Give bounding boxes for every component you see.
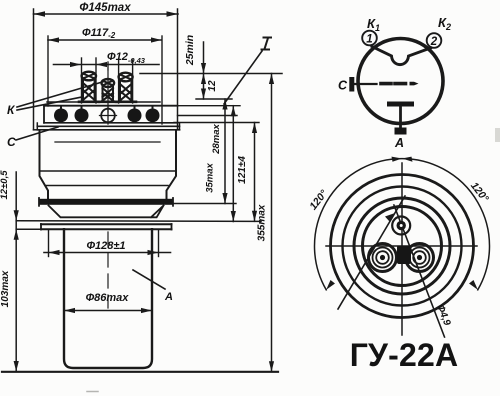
svg-text:К1: К1 xyxy=(367,16,380,33)
ground baseline xyxy=(2,371,278,373)
ring bottom reference line xyxy=(16,228,171,230)
grid terminal tick xyxy=(349,77,354,92)
svg-text:2: 2 xyxy=(430,36,438,48)
axis dashed centerline xyxy=(107,62,109,308)
top pin (grid) xyxy=(392,217,410,235)
120 degree dimension arc xyxy=(315,159,490,290)
center exhaust tip (circle with cross) xyxy=(100,107,117,124)
faint right edge artifact xyxy=(495,128,500,142)
dimension 12 (right) xyxy=(201,74,218,100)
svg-text:С: С xyxy=(338,79,348,93)
lower-right pin (cathode) xyxy=(406,244,434,272)
ceramic body outline xyxy=(40,130,177,199)
leader to view I xyxy=(224,51,262,104)
svg-text:355max: 355max xyxy=(257,204,268,241)
svg-text:Ф117-2: Ф117-2 xyxy=(82,27,116,40)
top cap terminal 1 xyxy=(79,58,99,103)
svg-text:12: 12 xyxy=(207,80,218,92)
diagonal through lower-right pin (leader of Ф4,9) xyxy=(394,205,445,337)
outer circle xyxy=(331,175,474,318)
circle 3 xyxy=(354,198,450,294)
svg-text:28max: 28max xyxy=(211,123,222,154)
svg-text:25min: 25min xyxy=(184,35,196,66)
dimension 28max xyxy=(211,99,228,204)
arc arrowhead lower-right xyxy=(469,280,478,290)
svg-text:121±4: 121±4 xyxy=(237,156,248,184)
lower-left pin (cathode) xyxy=(369,244,397,272)
filament (heater) xyxy=(372,47,431,65)
anode cylinder xyxy=(64,229,152,368)
svg-text:Ф145max: Ф145max xyxy=(79,2,131,14)
svg-text:К: К xyxy=(7,103,16,117)
top plate of envelope xyxy=(37,102,179,130)
dimension 355max xyxy=(257,74,275,372)
diagonal through lower-left pin xyxy=(338,196,405,309)
svg-text:Ф86max: Ф86max xyxy=(86,292,130,304)
long reference line at ring top xyxy=(16,220,261,223)
top cap terminal 3 xyxy=(116,60,136,103)
svg-text:А: А xyxy=(164,291,173,303)
arrowhead pointing at top pin xyxy=(385,213,395,222)
dimension 121±4 xyxy=(237,123,257,222)
envelope circle xyxy=(358,39,443,124)
faint mark below baseline xyxy=(87,391,98,393)
dimension 25min xyxy=(184,35,206,74)
anode lead xyxy=(399,107,402,130)
svg-text:Ф12-0,43: Ф12-0,43 xyxy=(107,51,146,65)
circle 2 xyxy=(343,187,462,306)
svg-text:1: 1 xyxy=(366,34,372,46)
grid line solid part xyxy=(355,83,377,85)
vertical crosshair xyxy=(401,163,403,335)
dimension Ф128±1 xyxy=(44,229,171,256)
dimension Ф145max xyxy=(34,2,179,130)
svg-text:А: А xyxy=(394,136,404,150)
dimension Ф12-0,43 xyxy=(54,51,160,67)
svg-text:12±0,5: 12±0,5 xyxy=(0,170,10,200)
leader to A label xyxy=(133,270,165,289)
mounting flange (Ф145) xyxy=(39,198,173,206)
svg-text:К2: К2 xyxy=(438,15,451,32)
right side reference lines xyxy=(140,73,282,75)
anode terminal square xyxy=(395,128,407,135)
top cap terminal 2 (middle) xyxy=(99,62,117,112)
label I xyxy=(262,38,272,50)
grid dashes xyxy=(381,82,406,86)
pin circle 1 xyxy=(362,31,377,46)
anode bar xyxy=(387,102,414,107)
dimension Ф117-2 xyxy=(48,27,162,124)
arc arrowheads at top xyxy=(392,157,403,162)
leader lines to K label xyxy=(17,82,104,108)
radiator ring ends xyxy=(41,223,172,225)
stud terminals row xyxy=(54,109,160,123)
dimension Ф86max xyxy=(64,292,152,313)
svg-text:С: С xyxy=(7,135,16,149)
leader line to C label xyxy=(16,127,58,140)
svg-text:103max: 103max xyxy=(0,270,11,307)
taper below flange xyxy=(49,206,164,218)
svg-text:Ф128±1: Ф128±1 xyxy=(86,240,125,252)
pin circle 2 xyxy=(427,33,442,48)
left dimension line (12±0.5 and 103max) xyxy=(14,172,19,372)
svg-text:ГУ-22А: ГУ-22А xyxy=(350,337,459,373)
circle 4 xyxy=(363,207,442,286)
dimension 35max xyxy=(205,106,236,222)
horizontal crosshair xyxy=(326,245,477,247)
center boss xyxy=(397,246,411,265)
svg-text:35max: 35max xyxy=(205,162,216,192)
arc arrowhead lower-left xyxy=(326,280,335,290)
